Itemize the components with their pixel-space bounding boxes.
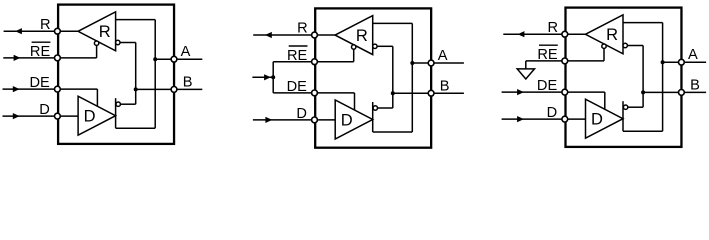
svg-text:R: R — [356, 27, 368, 45]
svg-text:B: B — [183, 75, 193, 91]
svg-text:A: A — [688, 47, 698, 63]
svg-text:D: D — [341, 111, 353, 129]
svg-text:D: D — [591, 111, 603, 129]
svg-text:A: A — [438, 48, 448, 64]
svg-text:B: B — [690, 78, 700, 94]
svg-text:DE: DE — [287, 79, 308, 95]
svg-text:R: R — [606, 26, 618, 44]
svg-text:R: R — [297, 21, 308, 37]
svg-text:D: D — [39, 102, 50, 118]
svg-text:DE: DE — [30, 75, 51, 91]
svg-text:B: B — [440, 78, 450, 94]
svg-text:R: R — [99, 23, 111, 41]
svg-text:RE: RE — [287, 48, 308, 64]
svg-text:A: A — [181, 44, 191, 60]
svg-text:DE: DE — [537, 78, 558, 94]
svg-text:RE: RE — [30, 44, 51, 60]
svg-text:RE: RE — [537, 47, 558, 63]
svg-text:R: R — [40, 17, 51, 33]
svg-text:R: R — [547, 20, 558, 36]
svg-text:D: D — [84, 108, 96, 126]
svg-text:D: D — [296, 106, 307, 122]
svg-text:D: D — [547, 105, 558, 121]
